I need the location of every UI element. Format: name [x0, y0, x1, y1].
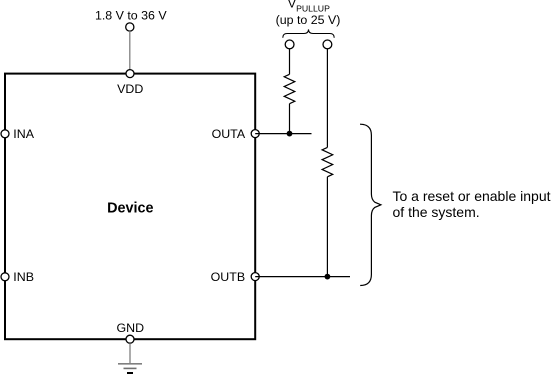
- wire OUTA stub: [255, 133, 311, 135]
- wire OUTB stub: [255, 276, 350, 278]
- svg-text:of the system.: of the system.: [393, 204, 480, 220]
- svg-text:To a reset or enable input: To a reset or enable input: [393, 188, 551, 204]
- wire GND to ground: [129, 343, 131, 364]
- wire R1 to node A: [289, 104, 291, 134]
- supply terminal: [126, 23, 134, 31]
- node A junction: [287, 131, 293, 137]
- svg-text:GND: GND: [117, 321, 145, 335]
- svg-text:(up to 25 V): (up to 25 V): [276, 13, 341, 27]
- resistor R2: [322, 147, 333, 176]
- svg-text:VDD: VDD: [117, 82, 143, 96]
- svg-text:Device: Device: [107, 201, 153, 217]
- pin OUTA: [251, 130, 259, 138]
- svg-text:1.8 V to 36 V: 1.8 V to 36 V: [95, 9, 167, 23]
- wire supply to VDD: [129, 31, 131, 70]
- brace over pullup terminals: [283, 29, 334, 37]
- pin INA: [1, 130, 9, 138]
- brace to system: [360, 124, 381, 285]
- wire R2 to node B: [326, 177, 328, 277]
- pullup terminal 1: [285, 40, 294, 49]
- svg-text:VPULLUP: VPULLUP: [288, 0, 330, 13]
- resistor R1: [284, 74, 295, 103]
- svg-text:OUTB: OUTB: [211, 270, 245, 284]
- pullup terminal 2: [323, 40, 332, 49]
- node B junction: [325, 274, 331, 280]
- wire terminal2 to R2: [326, 49, 328, 148]
- pin VDD: [126, 70, 134, 78]
- device box U1: [5, 74, 255, 340]
- wire terminal1 to R1: [289, 49, 291, 75]
- pin INB: [1, 273, 9, 281]
- ground: [118, 364, 142, 374]
- pin GND: [126, 335, 134, 343]
- pin OUTB: [251, 273, 259, 281]
- svg-text:OUTA: OUTA: [212, 127, 246, 141]
- svg-text:INB: INB: [13, 270, 34, 284]
- svg-text:INA: INA: [13, 127, 34, 141]
